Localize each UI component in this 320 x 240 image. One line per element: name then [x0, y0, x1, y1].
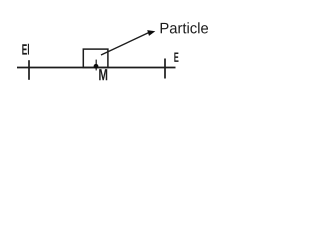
- arrow to Particle: shaft: [101, 32, 150, 55]
- label E: [174, 52, 178, 61]
- wire: main horizontal line: [17, 67, 176, 69]
- label El: [22, 44, 29, 55]
- label Particle: [161, 22, 208, 33]
- arrow to Particle: head: [147, 30, 155, 36]
- node M: filled dot on line: [94, 64, 99, 69]
- label M: [99, 69, 107, 80]
- block M: square box on the line: [83, 49, 108, 67]
- node E: right end tick: [164, 59, 166, 79]
- node El: left end tick: [28, 60, 30, 80]
- node M: tick through dot: [95, 60, 97, 71]
